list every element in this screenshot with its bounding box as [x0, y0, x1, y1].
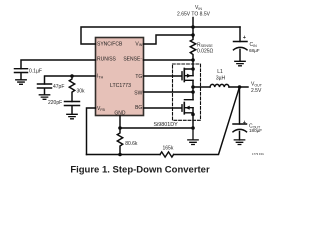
svg-text:0.1µF: 0.1µF [29, 69, 42, 75]
wire rail to RSENSE [192, 27, 194, 37]
svg-text:VIN: VIN [195, 5, 202, 11]
svg-text:165k: 165k [163, 145, 174, 151]
wire GND to power ground [120, 127, 193, 129]
wire SYNC/FCB to VIN rail loop [81, 27, 240, 44]
ground below MOSFETs [188, 128, 198, 145]
wire ITH compensation [45, 76, 96, 84]
svg-text:LTC1773: LTC1773 [110, 83, 131, 89]
wire SW to inductor [193, 86, 210, 88]
node SENSE junction [191, 58, 195, 62]
svg-text:Si9801DY: Si9801DY [154, 122, 179, 128]
ground below CIN [235, 61, 245, 66]
svg-text:47pF: 47pF [53, 84, 64, 90]
resistor 30k [69, 76, 74, 102]
ground below 47pF [39, 95, 49, 100]
svg-text:VOUT: VOUT [251, 82, 263, 88]
ground below 0.1uF [16, 80, 26, 85]
wire RUN/SS to C 0.1uF [21, 60, 96, 69]
wire feedback rail [87, 154, 161, 156]
wire inductor to VOUT [229, 86, 248, 88]
resistor RSENSE [190, 35, 195, 60]
svg-text:0.025Ω: 0.025Ω [197, 48, 214, 54]
resistor 165k [160, 152, 174, 157]
svg-text:3µH: 3µH [216, 75, 226, 81]
capacitor 0.1uF [15, 69, 28, 80]
svg-text:2.65V TO 8.5V: 2.65V TO 8.5V [177, 12, 211, 18]
wire SENSE- pin [144, 59, 194, 61]
svg-text:Figure 1. Step-Down Converter: Figure 1. Step-Down Converter [70, 164, 210, 175]
wire VOUT down to COUT [239, 87, 241, 124]
node power ground junction [191, 126, 195, 130]
svg-text:68µF: 68µF [249, 48, 260, 53]
inductor L1 [210, 84, 229, 87]
node feedback rail junction [118, 153, 122, 157]
ground below 220pF [67, 114, 77, 119]
dashed box Si9801DY [173, 64, 201, 120]
transistor Q2 NMOS (bottom of Si9801DY) [182, 100, 193, 128]
svg-text:SENSE–: SENSE– [123, 56, 142, 63]
svg-text:+: + [243, 35, 247, 41]
svg-text:BG: BG [135, 105, 142, 111]
svg-text:SYNC/FCB: SYNC/FCB [97, 41, 123, 47]
svg-text:TG: TG [135, 74, 142, 80]
node NMOS source junction [191, 113, 195, 117]
svg-text:+: + [243, 120, 247, 126]
node SW pin junction [191, 90, 195, 94]
resistor 80.6k [117, 128, 122, 155]
svg-text:L1: L1 [217, 69, 223, 75]
svg-text:180µF: 180µF [249, 128, 262, 133]
node GND junction [118, 126, 122, 130]
capacitor 220pF [65, 102, 80, 115]
wire VIN label drop [192, 18, 194, 28]
wire VIN pin to RSENSE top [144, 35, 194, 44]
capacitor 47pF [38, 84, 52, 95]
svg-text:80.6k: 80.6k [125, 141, 138, 147]
svg-text:GND: GND [114, 111, 126, 117]
svg-text:1773 F01: 1773 F01 [252, 152, 264, 156]
wire VIN rail drop to CIN [239, 27, 241, 42]
node ITH junction [70, 74, 74, 78]
wire TG pin to PMOS gate [144, 75, 182, 77]
op-amp U1 LTC1773 IC body [96, 38, 144, 116]
svg-text:SW: SW [134, 91, 142, 97]
svg-text:30k: 30k [77, 89, 86, 95]
svg-text:220pF: 220pF [48, 100, 62, 106]
wire SW pin [144, 91, 194, 93]
transistor Q1 PMOS (top of Si9801DY) [182, 60, 193, 100]
node VIN rail junction [191, 25, 195, 29]
ground below COUT [234, 140, 244, 145]
node SW node [191, 85, 195, 89]
capacitor CIN [234, 42, 248, 62]
capacitor COUT [233, 124, 247, 140]
svg-text:2.5V: 2.5V [251, 88, 262, 94]
node PMOS drain junction [191, 67, 195, 71]
node VOUT junction [238, 85, 242, 89]
wire VFB pin down to feedback rail [87, 108, 96, 155]
svg-text:RUN/SS: RUN/SS [97, 57, 117, 63]
wire GND pin down [119, 116, 121, 129]
node VIN pin junction [191, 33, 195, 37]
wire BG pin to NMOS gate [144, 107, 182, 109]
wire 165k to VOUT diagonal [174, 87, 240, 155]
